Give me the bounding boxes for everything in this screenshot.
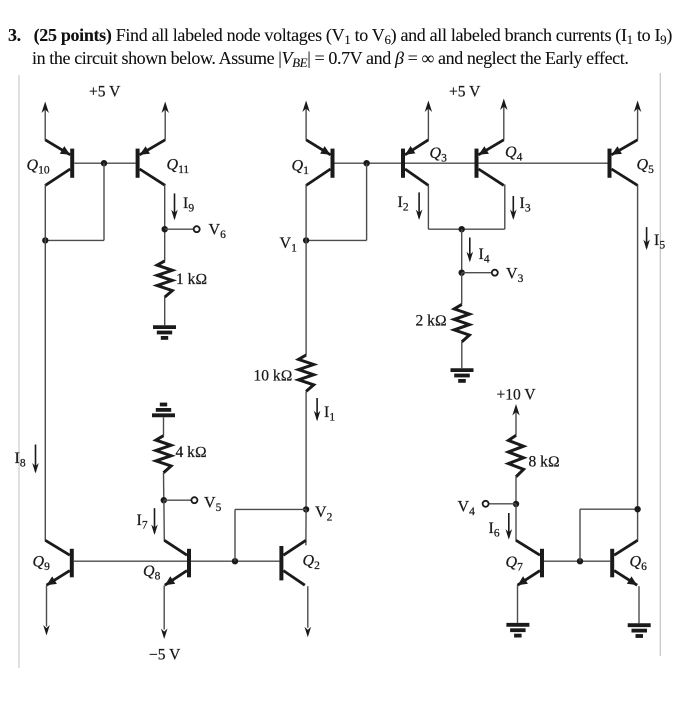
- current arrow I3: [510, 196, 517, 220]
- supply +5V arrow (Q4): [500, 99, 507, 140]
- wire Q7 base to Q6 base: [544, 560, 610, 562]
- svg-text:I3: I3: [520, 195, 531, 215]
- terminal V5 open circle: [191, 497, 197, 503]
- node V2: [303, 506, 309, 512]
- wire flipped-ground to 4k: [163, 417, 165, 436]
- terminal V3 open circle: [492, 270, 498, 276]
- node junction Q10 base: [101, 160, 107, 166]
- resistor 1 kOhm: [157, 261, 172, 297]
- svg-text:−5 V: −5 V: [149, 647, 181, 664]
- label I9: [183, 195, 194, 215]
- node V5 junction: [161, 497, 167, 503]
- supply +5V arrow (Q1): [302, 101, 309, 140]
- wire diode-connect Q10 vertical: [103, 163, 105, 240]
- wire Q4 collector down: [504, 185, 506, 230]
- ground flipped above 4 kOhm: [152, 405, 175, 416]
- svg-text:+5 V: +5 V: [449, 84, 481, 101]
- border scan line right: [659, 73, 661, 656]
- current arrow I2: [416, 192, 423, 220]
- node junction Q1 base: [363, 160, 369, 166]
- label I5: [654, 232, 665, 252]
- svg-text:Q11: Q11: [167, 157, 190, 177]
- transistor Q1: [306, 140, 332, 186]
- wire 4k to V5: [163, 473, 165, 501]
- wire V2 feedback vertical: [234, 509, 236, 561]
- wire 8k down to V4 node: [515, 477, 517, 504]
- arrow Q8 emitter to -5V: [161, 629, 168, 640]
- current arrow I6: [506, 513, 513, 540]
- node junction Q7-Q6 base: [577, 558, 583, 564]
- wire base bus Q9-Q8-Q2: [74, 560, 280, 562]
- wire V3 to 2k resistor: [461, 273, 463, 305]
- wire V2 feedback horizontal: [235, 508, 306, 510]
- svg-text:I6: I6: [489, 520, 500, 540]
- resistor 10 kOhm: [299, 355, 314, 391]
- wire 10k down to V2: [305, 391, 307, 509]
- label 2 kOhm: [416, 313, 447, 330]
- wire Q11 collector down: [164, 185, 166, 262]
- resistor 8 kOhm: [508, 435, 523, 476]
- arrow Q2 emitter down: [305, 627, 312, 638]
- label -5 V: [149, 647, 181, 664]
- label Q6: [630, 554, 648, 574]
- label I2: [398, 194, 409, 214]
- svg-text:V6: V6: [209, 222, 227, 242]
- svg-text:V4: V4: [458, 499, 476, 519]
- wire to V3 terminal: [462, 272, 492, 274]
- wire Q3-Q4 collectors join: [428, 228, 504, 230]
- label Q3: [430, 145, 448, 165]
- svg-text:8 kΩ: 8 kΩ: [529, 454, 560, 471]
- wire V5 down to Q8 collector: [163, 500, 165, 541]
- label I3: [520, 195, 531, 215]
- svg-text:Q4: Q4: [505, 144, 523, 164]
- label V4: [458, 499, 476, 519]
- current arrow I9: [171, 193, 178, 220]
- svg-text:Q2: Q2: [303, 553, 321, 573]
- svg-text:Q5: Q5: [637, 157, 655, 177]
- label +10 V: [497, 387, 537, 404]
- wire V2 down to Q2 collector: [305, 509, 307, 545]
- transistor Q9: [45, 540, 72, 585]
- label Q9: [33, 554, 51, 574]
- wire Q6 emitter down: [638, 586, 640, 623]
- transistor Q8: [164, 540, 189, 585]
- svg-text:Q3: Q3: [430, 145, 448, 165]
- transistor Q10: [45, 140, 72, 186]
- svg-text:1 kΩ: 1 kΩ: [176, 271, 207, 288]
- wire left rail (Q10 collector to Q9 collector): [44, 185, 46, 541]
- transistor Q3: [403, 140, 428, 186]
- transistor Q11: [138, 140, 166, 186]
- label I8: [15, 450, 26, 470]
- resistor 4 kOhm: [156, 436, 171, 473]
- wire to V5 terminal: [164, 499, 192, 501]
- svg-text:Q1: Q1: [292, 158, 310, 178]
- svg-text:Q6: Q6: [630, 554, 648, 574]
- transistor Q5: [610, 140, 638, 186]
- current arrow I7: [151, 508, 158, 535]
- transistor Q4: [477, 140, 504, 186]
- wire Q8 emitter down: [163, 585, 165, 629]
- label V6: [209, 222, 227, 242]
- wire diode-connect Q10 horizontal: [45, 239, 104, 241]
- svg-text:V5: V5: [204, 495, 222, 515]
- label I4: [479, 246, 490, 266]
- label V1: [280, 235, 298, 255]
- wire Q2 emitter down: [307, 586, 309, 628]
- wire resistor to ground: [164, 297, 166, 325]
- label 4 kOhm: [176, 444, 207, 461]
- label 10 kOhm: [254, 368, 293, 385]
- ground below 2 kOhm: [451, 370, 474, 381]
- supply +5V arrow (Q11): [162, 102, 169, 140]
- wire Q5 collector long rail: [637, 185, 639, 541]
- wire base bus Q1-Q3-Q4-Q5: [335, 162, 608, 164]
- wire Q7 emitter down: [517, 585, 519, 623]
- wire junction down to V3: [461, 229, 463, 273]
- terminal V4 open circle: [483, 501, 489, 507]
- wire Q3 collector down: [427, 185, 429, 230]
- supply +5V arrow (Q10): [42, 102, 49, 140]
- wire diode-connect Q1 vertical: [366, 163, 368, 240]
- wire base junction up: [579, 509, 581, 561]
- transistor Q6: [612, 540, 637, 585]
- svg-text:V2: V2: [315, 504, 333, 524]
- wire diode-connect Q1 horizontal: [306, 239, 367, 241]
- svg-text:2 kΩ: 2 kΩ: [416, 313, 447, 330]
- svg-text:I9: I9: [183, 195, 194, 215]
- ground below Q7: [506, 625, 529, 636]
- svg-text:I1: I1: [324, 404, 335, 424]
- svg-text:V3: V3: [506, 266, 524, 286]
- svg-text:4 kΩ: 4 kΩ: [176, 444, 207, 461]
- node junction base bus: [232, 558, 238, 564]
- wire base junction to Q5 rail: [580, 508, 638, 510]
- node V6 junction: [162, 226, 168, 232]
- label I6: [489, 520, 500, 540]
- label Q1: [292, 158, 310, 178]
- label Q8: [143, 563, 161, 583]
- node junction on Q5 rail: [634, 506, 640, 512]
- wire to V6 terminal: [165, 228, 194, 230]
- svg-text:I8: I8: [15, 450, 26, 470]
- label 1 kOhm: [176, 271, 207, 288]
- svg-text:I7: I7: [137, 512, 148, 532]
- label V3: [506, 266, 524, 286]
- svg-text:V1: V1: [280, 235, 298, 255]
- wire Q1 collector / V1 rail: [305, 185, 307, 355]
- svg-text:I2: I2: [398, 194, 409, 214]
- supply +5V arrow (Q5): [634, 101, 641, 140]
- svg-text:10 kΩ: 10 kΩ: [254, 368, 293, 385]
- current arrow I5: [643, 227, 650, 250]
- ground below Q6: [628, 625, 651, 636]
- arrow Q9 emitter to negative supply: [43, 625, 50, 636]
- svg-text:+5 V: +5 V: [89, 84, 121, 101]
- svg-text:I4: I4: [479, 246, 490, 266]
- wire Q10 base to Q11 base: [74, 162, 135, 164]
- wire to V4 terminal: [489, 503, 516, 505]
- label 8 kOhm: [529, 454, 560, 471]
- label Q11: [167, 157, 190, 177]
- wire V4 node down to Q7: [515, 504, 517, 541]
- current arrow I8: [32, 445, 39, 474]
- label +5 V right: [449, 84, 481, 101]
- node junction left rail: [42, 237, 48, 243]
- label Q5: [637, 157, 655, 177]
- label I1: [324, 404, 335, 424]
- svg-text:Q10: Q10: [27, 157, 50, 177]
- label V5: [204, 495, 222, 515]
- supply +5V arrow (Q3): [425, 101, 432, 140]
- current arrow I1: [314, 398, 321, 421]
- label Q2: [303, 553, 321, 573]
- label Q10: [27, 157, 50, 177]
- node junction collectors: [459, 226, 465, 232]
- label Q7: [506, 554, 524, 574]
- node V3 junction: [459, 270, 465, 276]
- label V2: [315, 504, 333, 524]
- transistor Q7: [516, 540, 542, 585]
- border scan line left: [18, 75, 20, 668]
- transistor Q2: [281, 540, 306, 585]
- node V4 junction: [513, 501, 519, 507]
- ground below 1 kOhm: [153, 327, 176, 338]
- svg-text:Q7: Q7: [506, 554, 524, 574]
- label I7: [137, 512, 148, 532]
- current arrow I4: [467, 238, 474, 263]
- label Q4: [505, 144, 523, 164]
- svg-text:+10 V: +10 V: [497, 387, 537, 404]
- node V1: [303, 237, 309, 243]
- terminal V6 open circle: [194, 226, 200, 232]
- label +5 V left: [89, 84, 121, 101]
- supply +10V arrow: [512, 404, 519, 435]
- resistor 2 kOhm: [454, 304, 469, 342]
- svg-text:Q8: Q8: [143, 563, 161, 583]
- wire Q9 emitter down: [46, 585, 48, 626]
- svg-text:Q9: Q9: [33, 554, 51, 574]
- wire 2k to ground: [461, 342, 463, 368]
